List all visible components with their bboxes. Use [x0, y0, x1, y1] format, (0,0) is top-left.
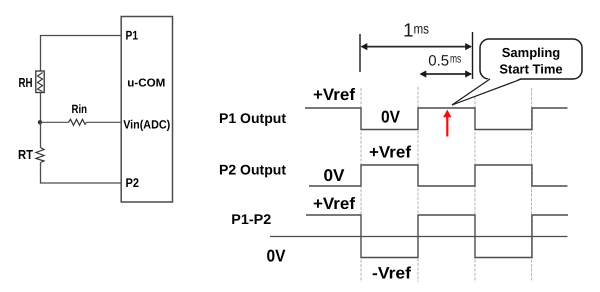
grid dotted line at edge 1	[360, 88, 362, 282]
waveform P1 output	[305, 108, 568, 130]
zero axis line (P1-P2 row)	[270, 236, 568, 238]
svg-text:-Vref: -Vref	[372, 265, 412, 283]
wire: RH to node	[40, 93, 42, 123]
svg-text:ms: ms	[450, 52, 461, 66]
wire: RT to bottom corner and to P2	[41, 163, 122, 184]
waveform P1-P2	[306, 215, 568, 258]
svg-text:RT: RT	[18, 147, 33, 162]
dimension arrow 1ms	[361, 43, 473, 50]
wire: node to RT	[40, 122, 42, 147]
svg-text:0V: 0V	[267, 246, 287, 265]
resistor RH	[36, 71, 44, 93]
svg-text:1: 1	[403, 21, 414, 42]
svg-text:+Vref: +Vref	[313, 195, 356, 213]
svg-text:RH: RH	[19, 75, 33, 90]
svg-text:P2: P2	[126, 176, 140, 190]
node junction dot	[38, 120, 42, 124]
svg-text:u-COM: u-COM	[127, 78, 165, 90]
svg-text:Sampling: Sampling	[502, 45, 561, 60]
red sampling arrow	[443, 110, 451, 137]
svg-text:P1 Output: P1 Output	[219, 110, 286, 126]
svg-text:0V: 0V	[324, 166, 346, 185]
dimension arrow 0.5ms	[420, 70, 473, 77]
svg-text:P2 Output: P2 Output	[219, 161, 286, 177]
svg-text:ms: ms	[414, 21, 430, 37]
svg-text:0.5: 0.5	[428, 52, 449, 69]
svg-text:Rin: Rin	[72, 102, 88, 116]
wire: Rin to Vin(ADC)	[87, 121, 122, 123]
svg-text:0V: 0V	[381, 107, 401, 126]
wire top: node A to P1	[41, 36, 122, 72]
svg-text:Start Time: Start Time	[499, 62, 562, 77]
wire: node to Rin	[41, 121, 69, 123]
callout box: Sampling Start Time	[452, 39, 582, 105]
grid dotted line at edge 3	[474, 88, 476, 282]
resistor Rin	[69, 119, 87, 125]
IC U1 u-COM box	[121, 17, 172, 203]
waveform P2 output	[309, 165, 568, 186]
svg-text:Vin(ADC): Vin(ADC)	[123, 118, 170, 132]
svg-text:P1-P2: P1-P2	[231, 211, 271, 227]
grid dotted line at edge 2	[417, 87, 419, 282]
svg-text:+Vref: +Vref	[313, 86, 356, 104]
dimension tick right (1ms end)	[472, 32, 474, 79]
grid dotted line at edge 4	[531, 88, 533, 282]
svg-text:P1: P1	[126, 28, 139, 42]
dimension tick left (1ms start)	[359, 34, 361, 72]
svg-text:+Vref: +Vref	[369, 144, 412, 162]
resistor RT	[36, 148, 44, 163]
